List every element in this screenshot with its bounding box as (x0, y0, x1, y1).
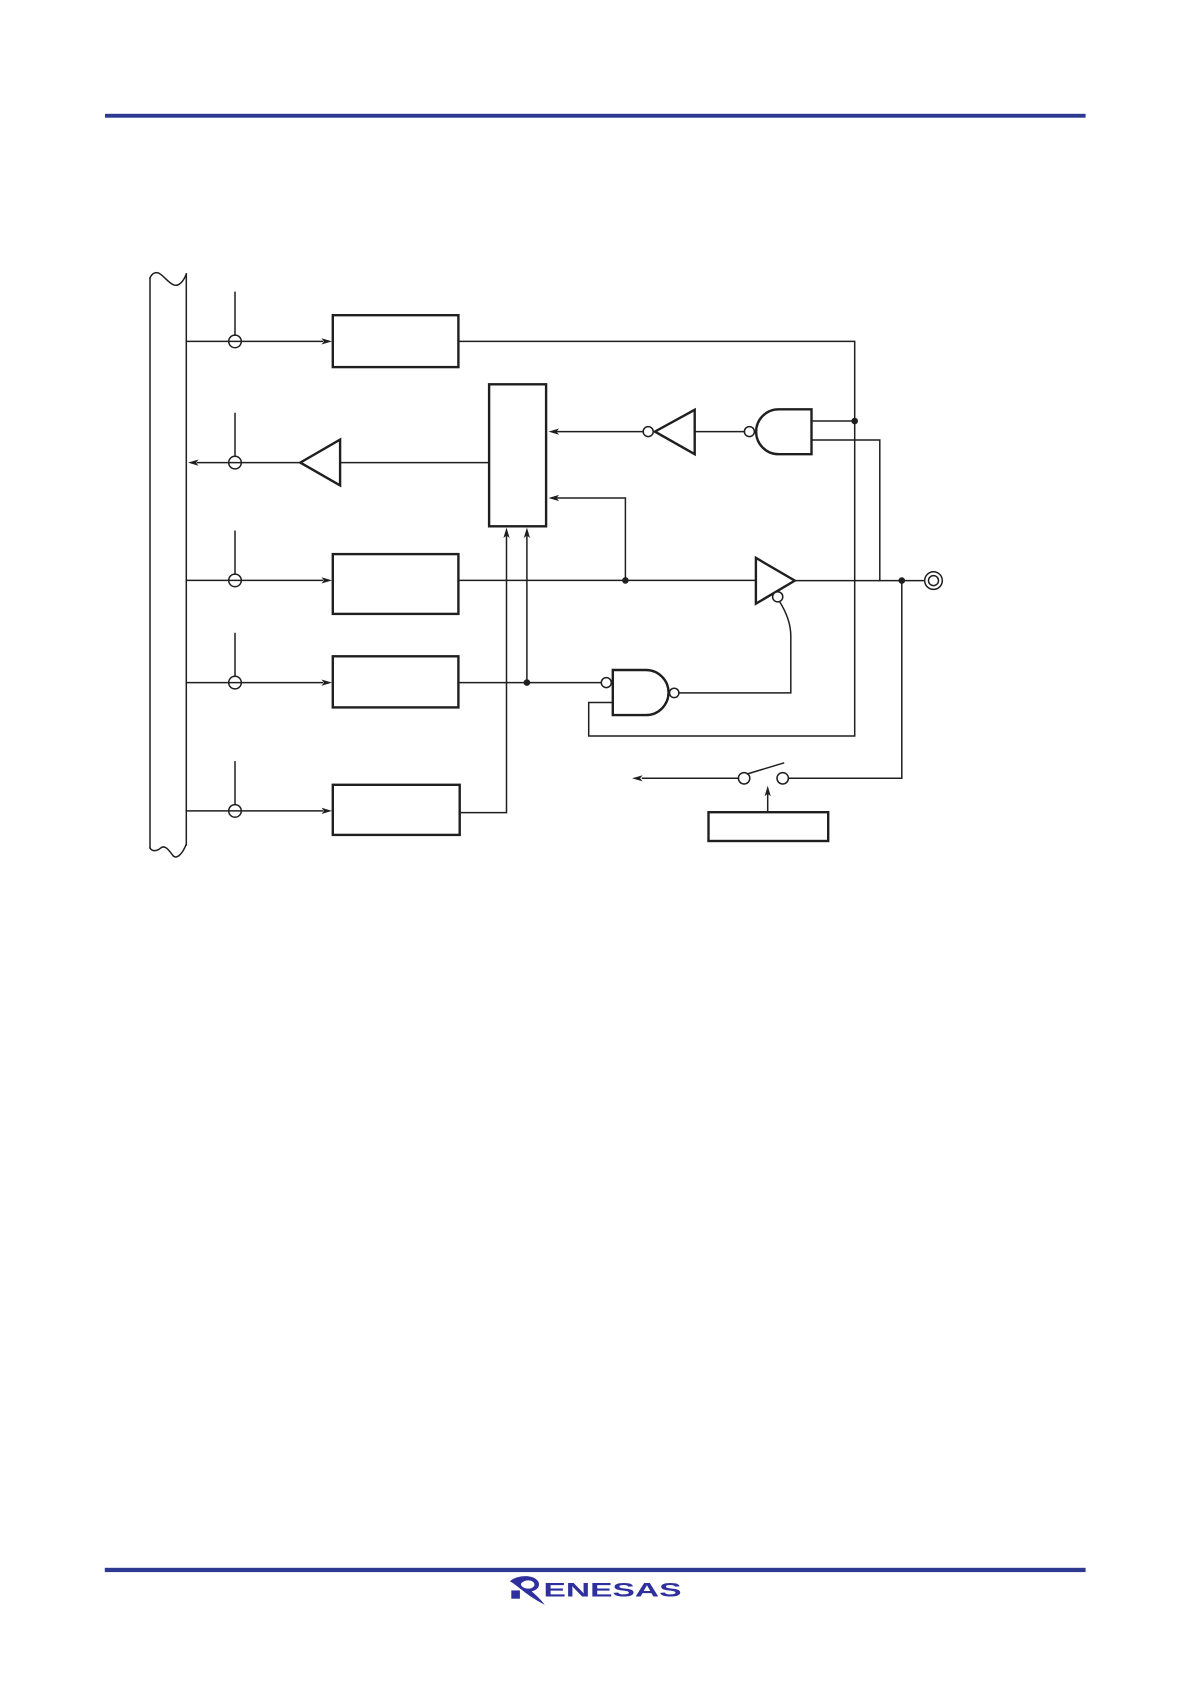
wire register A output to NAND U2 top input and NAND U3 lower input (458, 341, 854, 736)
wire node J2 up into mux bottom (524, 528, 530, 683)
register C (data register) (333, 656, 459, 707)
wire read buffer to bus (188, 460, 300, 466)
footer rule (105, 1568, 1086, 1572)
wire register B output to tristate buffer (458, 579, 756, 581)
inverter U1 (left-facing) (655, 410, 695, 454)
wire bus to register D (186, 808, 332, 814)
register D (function output) (333, 785, 460, 835)
analog input control box (709, 812, 829, 841)
bubble U2 output (744, 427, 754, 437)
bubble U3 input (601, 678, 611, 688)
Renesas logo (510, 1576, 682, 1605)
wire control box to switch (765, 786, 771, 812)
node J4 (899, 577, 906, 584)
wire switch to input path arrow (632, 775, 738, 781)
header rule (105, 114, 1086, 118)
port circle row1 (229, 292, 242, 347)
wire register D output up into mux bottom (460, 528, 510, 813)
wire mux to read buffer (340, 462, 489, 464)
wire U2 bottom input from pad net (812, 440, 880, 581)
node J1 (622, 577, 629, 584)
node J3 (851, 418, 858, 425)
wire bus to register A (186, 338, 332, 344)
bubble U3 output (670, 688, 679, 697)
wire bus to register B (186, 577, 332, 583)
wire U3 output to U4 enable (679, 602, 791, 693)
pad P1 (I/O pin) (925, 572, 943, 590)
NAND U2 (left-facing, pull-up control) (756, 409, 811, 454)
port circle row2 (229, 414, 242, 469)
read buffer B1 (300, 440, 340, 486)
wire U4 output to pad (795, 580, 925, 582)
wire bus to register C (186, 680, 332, 686)
wire U1 output into mux right side (549, 429, 644, 435)
node J2 (524, 679, 531, 686)
wire U2 top input (812, 420, 855, 422)
tristate buffer U4 (756, 558, 795, 604)
wire node J4 down to switch SW1 (788, 581, 901, 779)
multiplexer MUX (489, 384, 546, 526)
NAND U3 (output enable) (613, 670, 669, 715)
data bus (vertical bus with break waves) (150, 273, 186, 857)
register B (direction register) (333, 554, 459, 614)
register A (pull-up selection) (333, 315, 459, 367)
bubble U1 output (643, 427, 653, 437)
wire node J1 up into mux right side (549, 495, 626, 581)
wire U2 output to inverter U1 (695, 431, 745, 433)
wire register C output to NAND U3 input (458, 682, 601, 684)
port circle row5 (229, 762, 242, 817)
switch SW1 (738, 763, 788, 784)
port circle row4 (229, 634, 242, 689)
bubble U4 enable (773, 592, 783, 602)
port circle row3 (229, 531, 242, 586)
svg-text:ENESAS: ENESAS (544, 1581, 682, 1602)
